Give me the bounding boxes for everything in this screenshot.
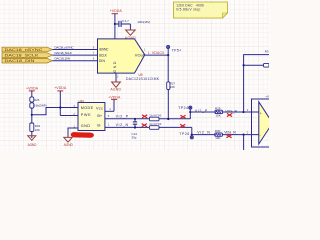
svg-text:DAC18_DIN: DAC18_DIN [55,57,71,61]
port DAC18_DIN [2,58,53,63]
svg-text:TP24: TP24 [178,106,188,110]
wire U92 GND to ground [68,128,78,137]
power +VDDA (feeds U92 Vcc) [108,96,121,112]
svg-text:MODE: MODE [81,106,94,110]
svg-text:10K: 10K [35,128,40,132]
svg-text:AGND: AGND [28,143,37,147]
svg-text:B+: B+ [97,114,103,118]
power +VDDA (top, above C17) [110,9,123,24]
svg-text:TP26: TP26 [179,132,189,136]
svg-text:DAC18_nSYNC: DAC18_nSYNC [55,46,75,50]
resistor R29 10K (row P) [215,106,223,117]
svg-text:+VDDA: +VDDA [54,86,67,90]
svg-text:L_VDAC0: L_VDAC0 [148,51,164,55]
ground AGND (below DAC) [110,82,121,92]
resistor (cut off at right edge) [264,63,270,67]
wire divider middle [31,108,33,124]
ground AGND (U92) [64,137,74,146]
svg-text:Vi2a_N: Vi2a_N [224,131,236,135]
junction dot C32 bottom [134,126,136,128]
junction dot at C17 left [114,23,116,25]
junction dot op-amp + input [242,111,244,113]
no-ERC marker (row N right) [226,135,231,138]
test point TP26 [179,132,193,139]
svg-text:AGND: AGND [64,143,74,147]
no-ERC marker (row N left) [142,124,147,127]
junction dot op-amp - input [243,134,245,136]
capacitor C32 3.3u (vertical) [132,119,138,140]
svg-text:16k(DNP): 16k(DNP) [34,104,47,108]
svg-text:R30: R30 [215,129,221,133]
wire row N (S- out) [105,126,192,128]
wire row P jog up [189,112,191,119]
svg-text:100n(16V): 100n(16V) [137,20,150,24]
svg-text:Vi2a_P: Vi2a_P [225,109,237,113]
port DAC18_SCLK [2,53,53,58]
wire to PWD pin [60,115,78,117]
svg-text:DIN: DIN [99,59,106,63]
svg-text:GND: GND [81,124,91,128]
svg-text:R29: R29 [215,106,221,110]
wire row P (S+ out) [105,118,190,120]
wire row P right [190,111,259,113]
svg-text:+VDDA: +VDDA [26,86,39,90]
svg-text:+: + [260,111,262,115]
wire VOut down [167,55,169,82]
wire VOut [145,54,168,56]
op-amp/DAC U9 body (pentagon) [98,39,146,73]
ground AGND (left divider) [28,136,37,147]
junction dot TP26 [191,134,193,136]
svg-text:SCLK: SCLK [99,53,108,57]
svg-text:Vcc: Vcc [96,106,103,110]
no-ERC marker (row P right) [227,113,232,116]
svg-text:DAC121S101CIMK: DAC121S101CIMK [126,77,160,81]
svg-text:PWE: PWE [81,113,91,117]
op-amp triangle [259,102,273,144]
svg-text:DAC18_DIN: DAC18_DIN [5,59,35,63]
wire divider tap to MODE [32,108,78,115]
power +VDDA (left divider) [26,86,39,97]
wire DIN [53,60,98,62]
no-ERC marker (row P left) [142,115,147,118]
svg-text:10K: 10K [216,113,221,117]
svg-text:10K: 10K [215,136,220,140]
red annotation marker (highlight on GND pin) [71,132,94,137]
svg-text:C17: C17 [122,19,129,23]
power +VDDA (middle, feeds U92 PWD) [54,86,67,115]
DAC bottom pin wire [115,73,117,82]
wire SCLK [53,54,98,56]
wire to right edge resistor [244,64,264,66]
svg-text:Vi2_P: Vi2_P [116,115,129,119]
svg-text:0/5.88uV step: 0/5.88uV step [176,7,200,11]
wire R34 to ground [31,132,33,139]
svg-text:33p: 33p [132,136,137,140]
junction dot divider tap [31,114,33,116]
IC U92 (MODE/PWD/GND block) [78,99,105,131]
wire row N jog down [191,128,193,135]
wire feedback up [244,55,269,112]
svg-text:U92: U92 [79,99,85,103]
svg-text:DAC18_SCLK: DAC18_SCLK [55,51,73,55]
junction dot VOut [167,54,169,56]
svg-text:Vi2_P: Vi2_P [195,109,208,113]
no-ERC marker (row P mid) [180,115,185,118]
svg-text:R3: R3 [265,50,269,54]
wire down to bottom edge [243,135,245,150]
svg-text:Vi2_N: Vi2_N [197,131,210,135]
svg-text:R26: R26 [34,98,40,102]
note: yellow comment box "12bit DAC 4096" [174,2,228,18]
resistor 1k/4700 (row N) [149,122,161,129]
resistor R27 10K (vertical) [167,81,176,89]
resistor R34 10K (vertical) [30,123,41,132]
junction dot TP24 [189,111,191,113]
capacitor C17 100n(16V) [115,19,150,27]
ground AGND (top, right of C17) [125,24,137,40]
DAC pin numbers [93,45,146,78]
sheet background grid [0,0,269,150]
svg-text:DAC18_SCLK: DAC18_SCLK [5,54,40,58]
svg-text:GND: GND [113,61,117,73]
junction dot C32 top [134,118,136,120]
svg-text:AGND: AGND [110,88,121,92]
op-amp U10 box (cut at right edge) [252,99,270,147]
U92 pin stubs left [73,108,79,116]
junction dot feedback [243,64,245,66]
svg-text:+VDDA: +VDDA [110,9,123,13]
svg-text:nSYNC: nSYNC [99,48,109,52]
resistor R26 16k DNP (vertical) [30,97,47,108]
test point TP5+ [167,45,182,54]
resistor R30 10K (row N) [215,129,223,140]
svg-text:+V: +V [265,94,269,98]
wire nSYNC [53,49,98,51]
wire row N right [192,134,259,136]
no-ERC marker (row N mid) [180,124,185,127]
junction dot at MODE crossing [59,106,61,108]
svg-text:DAC18_nSYNC: DAC18_nSYNC [5,48,43,52]
svg-text:Vi2_N: Vi2_N [116,123,129,127]
op-amp pin numbers [247,108,249,135]
svg-text:1k/4700: 1k/4700 [149,122,161,126]
U92 pin numbers [73,104,111,129]
wire Vcc [105,110,114,112]
svg-text:10K: 10K [170,85,175,89]
svg-text:VOut: VOut [135,52,145,57]
wire +VDDA down to DAC pin 5 [114,24,116,39]
junction dot row P / VOut [167,118,169,120]
svg-text:1k/4700: 1k/4700 [149,114,161,118]
svg-text:TP5+: TP5+ [172,48,182,52]
port DAC18_nSYNC [2,47,53,52]
wire R27 to row P [167,90,169,120]
test point TP24 [178,106,192,112]
resistor 1k/4700 (row P) [149,114,161,121]
